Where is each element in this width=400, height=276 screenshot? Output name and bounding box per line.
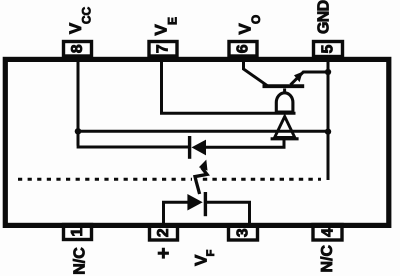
- svg-text:GND: GND: [316, 0, 333, 34]
- svg-text:3: 3: [235, 228, 252, 237]
- svg-text:+: +: [153, 247, 175, 259]
- svg-text:O: O: [249, 15, 263, 24]
- wire VCC vertical from pin 8: [77, 60, 80, 146]
- svg-text:8: 8: [69, 44, 86, 53]
- pin label GND: [316, 0, 333, 34]
- photodiode D2: [190, 136, 206, 159]
- light emission arrow (photon bolt): [195, 160, 208, 194]
- pin 6 box: [229, 42, 257, 57]
- wire cathode from LED to pin 3: [205, 202, 250, 226]
- IC body outline: [5, 59, 389, 225]
- pin label N/C (pin 4): [319, 244, 336, 272]
- wire collector from pin 6: [244, 60, 268, 86]
- pin label V_E: [152, 17, 180, 36]
- pin label V_O: [236, 15, 264, 35]
- transistor Q1 base bar: [263, 84, 305, 88]
- svg-text:5: 5: [320, 44, 337, 53]
- wire enable from pin 7 to AND gate: [162, 60, 296, 113]
- svg-text:1: 1: [69, 228, 86, 237]
- wire anode from pin 2 to LED: [164, 202, 189, 226]
- AND gate U1: [276, 89, 293, 113]
- svg-text:CC: CC: [80, 7, 94, 25]
- svg-text:4: 4: [320, 228, 337, 237]
- pin 3 box: [229, 226, 258, 241]
- svg-text:6: 6: [235, 44, 252, 53]
- node supply/GND junction dot: [325, 128, 331, 134]
- pin 2 box: [150, 226, 178, 241]
- pin label + (pin 2 anode): [153, 247, 175, 259]
- LED D1: [187, 192, 205, 216]
- svg-text:E: E: [166, 17, 180, 25]
- svg-text:N/C: N/C: [72, 247, 89, 275]
- amplifier A1 (triangle): [271, 117, 299, 139]
- node emitter/GND junction dot: [325, 69, 331, 75]
- pin 1 box: [64, 225, 92, 240]
- pin 7 box: [149, 42, 177, 57]
- node VCC junction dot: [75, 128, 82, 135]
- wire VCC-GND supply line through amplifier: [78, 130, 328, 133]
- shield (dashed isolation line to GND): [18, 178, 192, 181]
- pin label V_F: [192, 249, 217, 266]
- wire emitter to GND line: [303, 71, 329, 74]
- svg-text:7: 7: [155, 44, 172, 53]
- pin 4 box: [313, 225, 342, 241]
- wire amplifier input from photodiode: [205, 139, 284, 148]
- pin label V_CC: [66, 7, 94, 35]
- pin label N/C (pin 1): [72, 247, 89, 275]
- pin 8 box: [64, 42, 92, 57]
- pin 5 box: [314, 42, 343, 57]
- svg-text:N/C: N/C: [319, 244, 336, 272]
- wire GND vertical from pin 5 to shield: [327, 60, 330, 180]
- wire VCC to photodiode cathode (horizontal): [77, 146, 189, 149]
- svg-text:2: 2: [155, 228, 172, 237]
- transistor Q1 emitter with arrowhead: [291, 72, 304, 85]
- svg-text:F: F: [205, 249, 217, 256]
